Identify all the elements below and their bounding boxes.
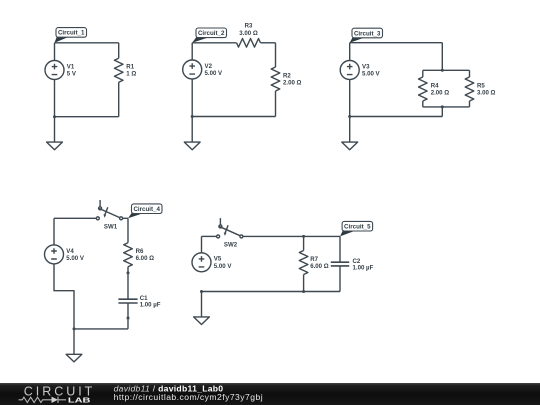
svg-text:Circuit_5: Circuit_5 xyxy=(344,224,371,231)
svg-text:2.00 Ω: 2.00 Ω xyxy=(431,90,450,97)
wire R5 top stub xyxy=(469,70,471,77)
svg-text:3.00 Ω: 3.00 Ω xyxy=(239,30,258,37)
resistor R1 xyxy=(114,58,136,82)
svg-text:Circuit_2: Circuit_2 xyxy=(198,30,225,37)
wire circuit3 left lower xyxy=(349,80,351,117)
wire circuit2 right upper xyxy=(275,43,277,67)
svg-text:1 Ω: 1 Ω xyxy=(126,71,136,78)
wire R4 bottom stub xyxy=(422,101,424,107)
svg-text:SW2: SW2 xyxy=(224,242,238,249)
wire circuit3 parallel top rail xyxy=(423,69,470,71)
wire circuit4 down to R6 xyxy=(127,218,129,242)
wire R4 top stub xyxy=(422,70,424,77)
wire circuit5 to switch xyxy=(202,235,217,237)
wire circuit1 right lower xyxy=(118,82,120,117)
ground circuit5 xyxy=(194,292,210,325)
wire circuit3 bottom xyxy=(350,116,443,118)
wire circuit3 left upper xyxy=(349,43,351,61)
wire circuit3 top xyxy=(350,42,443,44)
wire circuit3 branch vertical xyxy=(441,43,443,71)
svg-text:Circuit_4: Circuit_4 xyxy=(133,206,160,213)
node junction circuit5 bottom mid xyxy=(302,290,305,293)
svg-text:R1: R1 xyxy=(126,63,134,70)
svg-text:5.00 V: 5.00 V xyxy=(66,255,85,262)
wire circuit4 V4 down xyxy=(54,264,74,329)
svg-text:5.00 V: 5.00 V xyxy=(362,71,381,78)
logo diode xyxy=(52,397,67,403)
node junction circuit5 top xyxy=(302,235,305,238)
svg-text:R4: R4 xyxy=(431,82,439,89)
svg-text:R3: R3 xyxy=(245,23,253,30)
wire circuit4 V4 up xyxy=(53,218,55,245)
svg-text:2.00 Ω: 2.00 Ω xyxy=(283,80,302,87)
wire C2 top stub xyxy=(339,236,341,262)
svg-text:SW1: SW1 xyxy=(104,224,118,231)
wire circuit1 left upper xyxy=(54,43,56,61)
svg-text:Circuit_1: Circuit_1 xyxy=(58,30,85,37)
svg-text:5.00 V: 5.00 V xyxy=(205,70,224,77)
node junction circuit4 lower xyxy=(127,317,130,320)
ground circuit3 xyxy=(342,117,358,150)
wire circuit4 bottom rail xyxy=(74,328,128,330)
svg-text:5 V: 5 V xyxy=(67,71,77,78)
svg-text:R5: R5 xyxy=(477,82,485,89)
wire circuit4 R6 to C1 xyxy=(127,267,129,300)
wire circuit2 top-right xyxy=(261,42,276,44)
svg-text:R7: R7 xyxy=(310,256,318,263)
ground circuit1 xyxy=(47,117,63,150)
svg-text:R6: R6 xyxy=(136,248,144,255)
resistor R3 xyxy=(237,23,261,47)
wire circuit1 left lower xyxy=(54,80,56,117)
svg-text:5.00 V: 5.00 V xyxy=(214,263,233,270)
resistor R4 xyxy=(419,77,450,101)
wire circuit2 right lower xyxy=(275,91,277,117)
label Circuit_1 xyxy=(55,28,87,43)
label Circuit_4 xyxy=(128,204,162,218)
svg-text:http://circuitlab.com/cym2fy73: http://circuitlab.com/cym2fy73y7gbj xyxy=(114,392,264,402)
node junction circuit4 ground xyxy=(73,327,76,330)
wire circuit5 bottom rail xyxy=(202,291,341,293)
wire circuit5 V5 up xyxy=(201,236,203,252)
wire circuit4 C1 down xyxy=(127,303,129,329)
wire circuit2 top-left xyxy=(192,42,236,44)
footer bar xyxy=(0,383,540,405)
label Circuit_3 xyxy=(350,28,383,43)
wire circuit1 right upper xyxy=(118,43,120,58)
svg-text:6.00 Ω: 6.00 Ω xyxy=(136,255,155,262)
resistor R6 xyxy=(124,243,154,267)
voltage source V1 xyxy=(45,61,77,80)
resistor R2 xyxy=(271,67,301,91)
svg-text:V5: V5 xyxy=(214,256,222,263)
wire circuit2 bottom xyxy=(192,116,275,118)
svg-text:R2: R2 xyxy=(283,72,291,79)
svg-text:6.00 Ω: 6.00 Ω xyxy=(310,263,329,270)
resistor R7 xyxy=(299,251,328,275)
voltage source V4 xyxy=(45,245,85,264)
wire C2 bottom stub xyxy=(339,266,341,292)
wire R5 bottom stub xyxy=(469,101,471,107)
label Circuit_2 xyxy=(192,28,226,43)
svg-text:Circuit_3: Circuit_3 xyxy=(354,30,381,37)
node junction circuit3 left xyxy=(348,115,351,118)
svg-text:LAB: LAB xyxy=(68,396,91,405)
voltage source V3 xyxy=(340,61,380,80)
node junction circuit3 top xyxy=(441,69,444,72)
wire circuit4 top to switch xyxy=(54,217,96,219)
logo resistor zigzag xyxy=(19,397,52,402)
capacitor C1 xyxy=(118,295,160,308)
label Circuit_5 xyxy=(340,221,373,236)
wire R7 top stub xyxy=(303,236,305,250)
wire circuit2 left upper xyxy=(191,43,193,60)
resistor R5 xyxy=(465,77,495,101)
voltage source V2 xyxy=(183,60,223,79)
node junction circuit5 bottom left xyxy=(200,290,203,293)
svg-text:3.00 Ω: 3.00 Ω xyxy=(477,90,496,97)
capacitor C2 xyxy=(331,258,374,271)
voltage source V5 xyxy=(192,253,232,272)
wire circuit3 branch to bottom xyxy=(441,107,443,117)
wire circuit2 left lower xyxy=(191,79,193,117)
node junction circuit4 mid xyxy=(127,271,130,274)
wire R7 bottom stub xyxy=(303,275,305,292)
svg-text:V2: V2 xyxy=(205,63,213,70)
svg-text:V1: V1 xyxy=(67,63,75,70)
svg-text:1.00 µF: 1.00 µF xyxy=(140,301,161,308)
wire circuit3 parallel bottom rail xyxy=(423,106,470,108)
switch SW1 xyxy=(96,200,122,231)
wire circuit5 top xyxy=(243,235,340,237)
ground circuit4 xyxy=(66,329,82,362)
switch SW2 xyxy=(217,218,243,249)
wire circuit1 bottom xyxy=(55,116,119,118)
ground circuit2 xyxy=(184,117,200,150)
node junction circuit3 bottom xyxy=(441,105,444,108)
wire circuit1 top xyxy=(55,42,119,44)
wire circuit4 switch to corner xyxy=(123,217,128,219)
svg-text:V3: V3 xyxy=(362,63,370,70)
svg-text:V4: V4 xyxy=(66,248,74,255)
node junction circuit2 xyxy=(191,115,194,118)
svg-text:1.00 µF: 1.00 µF xyxy=(353,265,374,272)
node junction circuit1 xyxy=(53,115,56,118)
